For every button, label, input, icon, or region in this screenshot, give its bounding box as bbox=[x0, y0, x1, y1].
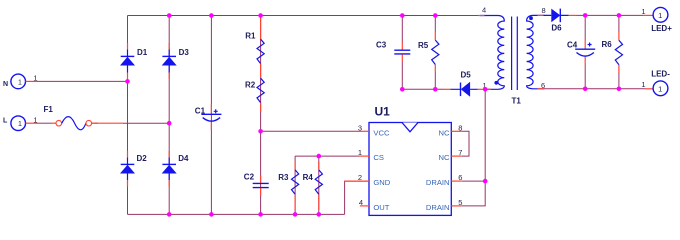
U1 pin 7 stub bbox=[451, 155, 461, 157]
node drain pin6 junction bbox=[483, 179, 488, 184]
svg-text:DRAIN: DRAIN bbox=[426, 178, 450, 187]
terminal L bbox=[3, 115, 38, 130]
svg-text:LED-: LED- bbox=[651, 69, 670, 78]
node top rail C3 bbox=[400, 13, 405, 18]
wire NC bracket pins 8-7 bbox=[462, 131, 469, 156]
diode D4 bbox=[162, 151, 189, 187]
diode D6 bbox=[544, 9, 577, 33]
wire GND to bottom rail bbox=[345, 181, 369, 214]
svg-text:R6: R6 bbox=[602, 40, 613, 49]
svg-text:4: 4 bbox=[482, 6, 486, 15]
node top rail C1 bbox=[209, 13, 214, 18]
node drain junction bbox=[483, 87, 488, 92]
svg-text:1: 1 bbox=[33, 74, 37, 83]
node top rail R5 bbox=[433, 13, 438, 18]
svg-text:N: N bbox=[3, 81, 8, 88]
node bottom rail R4 bbox=[317, 212, 322, 217]
wire C4 bottom bbox=[584, 65, 586, 89]
svg-text:R4: R4 bbox=[303, 173, 314, 182]
node bottom rail D4 bbox=[167, 212, 172, 217]
svg-text:1: 1 bbox=[358, 148, 362, 157]
svg-text:5: 5 bbox=[458, 198, 462, 207]
terminal LED+ bbox=[641, 7, 672, 33]
svg-text:R1: R1 bbox=[245, 32, 256, 41]
node top rail R1 bbox=[258, 13, 263, 18]
capacitor C4 bbox=[567, 40, 595, 65]
node VCC tap bbox=[258, 129, 263, 134]
svg-text:C4: C4 bbox=[567, 40, 578, 49]
U1 pin 3 stub bbox=[359, 130, 369, 132]
wire R5 bottom bbox=[434, 72, 436, 89]
svg-text:R5: R5 bbox=[418, 41, 429, 50]
svg-text:D3: D3 bbox=[179, 48, 190, 57]
wire top rail bbox=[128, 15, 479, 17]
svg-text:8: 8 bbox=[542, 6, 546, 15]
U1 pin 5 stub bbox=[451, 205, 461, 207]
wire R3 column bbox=[294, 156, 296, 214]
svg-text:C3: C3 bbox=[376, 41, 387, 50]
svg-text:LED+: LED+ bbox=[651, 24, 672, 33]
wire VCC net bbox=[261, 130, 359, 132]
wire drain pin 6 bbox=[462, 180, 486, 182]
svg-text:1: 1 bbox=[18, 121, 22, 128]
node N bridge junction bbox=[125, 79, 130, 84]
T1 secondary winding bbox=[527, 15, 545, 88]
T1 pin 6 stub bbox=[538, 88, 545, 90]
svg-text:1: 1 bbox=[641, 7, 645, 16]
wire bridge column D3-D4 bbox=[168, 16, 170, 215]
wire C1 column bbox=[210, 16, 212, 215]
svg-text:D1: D1 bbox=[137, 48, 148, 57]
svg-text:NC: NC bbox=[439, 128, 450, 137]
T1 primary winding bbox=[480, 16, 504, 90]
node top rail D3 bbox=[167, 13, 172, 18]
node CS R4 bbox=[317, 154, 322, 159]
svg-text:6: 6 bbox=[541, 81, 545, 90]
svg-text:1: 1 bbox=[641, 80, 645, 89]
wire output bottom bbox=[545, 88, 646, 90]
svg-text:D2: D2 bbox=[137, 154, 148, 163]
node bottom rail C2 bbox=[258, 212, 263, 217]
resistor R5 bbox=[418, 32, 439, 72]
capacitor C3 bbox=[376, 41, 410, 63]
node L bridge junction bbox=[167, 121, 172, 126]
diode D3 bbox=[162, 43, 190, 79]
wire CS net bbox=[295, 155, 359, 157]
wire R5 top bbox=[434, 16, 436, 33]
wire C3 bottom bbox=[401, 62, 403, 89]
terminal N bbox=[3, 74, 38, 89]
svg-text:1: 1 bbox=[658, 11, 662, 20]
svg-text:NC: NC bbox=[439, 153, 450, 162]
svg-text:C2: C2 bbox=[244, 172, 255, 181]
svg-text:C1: C1 bbox=[195, 107, 206, 116]
capacitor C2 bbox=[244, 172, 269, 196]
svg-text:D6: D6 bbox=[551, 23, 562, 32]
wire bottom rail bbox=[128, 213, 345, 215]
node bottom rail C1 bbox=[209, 212, 214, 217]
wire drain pin 5 to drain column bbox=[462, 89, 486, 206]
U1 pin 8 stub bbox=[451, 130, 461, 132]
svg-text:DRAIN: DRAIN bbox=[426, 203, 450, 212]
wire N net bbox=[37, 80, 128, 82]
svg-text:1: 1 bbox=[658, 84, 662, 93]
U1 pin 1 stub bbox=[359, 155, 369, 157]
svg-text:CS: CS bbox=[373, 153, 384, 162]
fuse F1 bbox=[44, 105, 99, 130]
resistor R3 bbox=[278, 162, 299, 210]
svg-text:F1: F1 bbox=[44, 105, 54, 114]
diode D1 bbox=[120, 43, 148, 79]
node output top C4 bbox=[583, 13, 588, 18]
wire C4 column bbox=[584, 15, 586, 40]
resistor R6 bbox=[602, 32, 623, 73]
op-amp U1 box bbox=[369, 105, 451, 216]
node output top R6 bbox=[617, 13, 622, 18]
svg-text:8: 8 bbox=[458, 123, 462, 132]
wire R1-R2-C2 column bbox=[260, 16, 262, 215]
wire R6 top bbox=[618, 15, 620, 32]
wire R4 column bbox=[318, 156, 320, 214]
node bottom rail R3 bbox=[293, 212, 298, 217]
U1 pin 4 stub bbox=[360, 205, 369, 207]
wire output top to D6 bbox=[577, 14, 644, 16]
T1 pin 8 stub bbox=[538, 14, 544, 16]
svg-text:VCC: VCC bbox=[373, 128, 390, 137]
svg-text:OUT: OUT bbox=[373, 203, 389, 212]
T1 primary phase dot bbox=[494, 81, 498, 85]
svg-text:7: 7 bbox=[458, 148, 462, 157]
T1 core bbox=[512, 17, 518, 91]
svg-text:U1: U1 bbox=[375, 105, 391, 119]
node snubber C3 corner bbox=[400, 87, 405, 92]
svg-text:L: L bbox=[3, 118, 8, 125]
wire snubber bottom bbox=[402, 88, 444, 90]
T1 secondary phase dot bbox=[529, 16, 533, 20]
wire snubber top C3 bbox=[401, 16, 403, 43]
T1 pin 1 stub bbox=[485, 88, 491, 90]
svg-text:3: 3 bbox=[358, 123, 362, 132]
T1 pin 4 stub bbox=[478, 15, 485, 17]
svg-text:T1: T1 bbox=[512, 97, 522, 106]
svg-text:R2: R2 bbox=[245, 81, 256, 90]
svg-text:1: 1 bbox=[33, 115, 37, 124]
node snubber R5 bbox=[433, 87, 438, 92]
svg-text:R3: R3 bbox=[278, 173, 289, 182]
svg-text:4: 4 bbox=[359, 198, 363, 207]
svg-text:6: 6 bbox=[458, 173, 462, 182]
svg-text:GND: GND bbox=[373, 178, 390, 187]
svg-text:D4: D4 bbox=[178, 154, 189, 163]
wire left bridge column D1-D2 bbox=[127, 16, 129, 215]
U1 pin 6 stub bbox=[451, 180, 461, 182]
svg-text:1: 1 bbox=[18, 79, 22, 86]
wire L net to fuse bbox=[37, 122, 52, 124]
resistor R1 bbox=[245, 16, 264, 64]
resistor R2 bbox=[245, 64, 264, 112]
diode D5 bbox=[444, 71, 485, 97]
resistor R4 bbox=[303, 162, 323, 210]
wire R6 bottom bbox=[618, 73, 620, 89]
svg-text:2: 2 bbox=[358, 173, 362, 182]
svg-text:D5: D5 bbox=[461, 71, 472, 80]
U1 pin 2 stub bbox=[345, 180, 369, 182]
node output bottom C4 bbox=[583, 87, 588, 92]
diode D2 bbox=[120, 151, 147, 187]
capacitor C1 bbox=[195, 104, 222, 130]
node output bottom R6 bbox=[617, 87, 622, 92]
terminal LED- bbox=[641, 69, 670, 95]
transformer T1 bbox=[478, 6, 546, 106]
wire fuse to bridge bbox=[123, 122, 169, 124]
